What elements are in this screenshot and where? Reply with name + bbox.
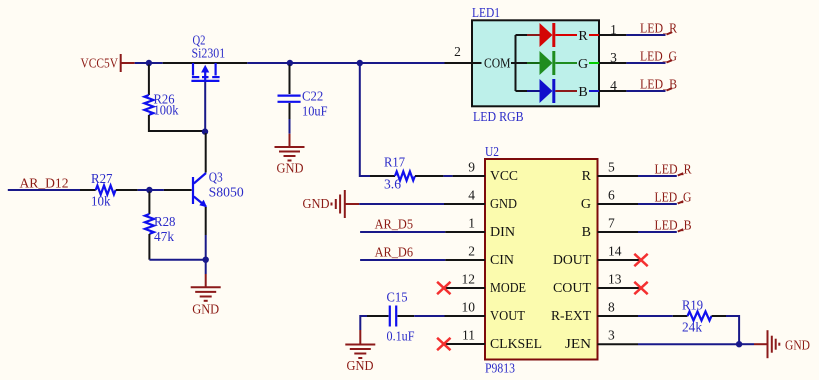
no-connect X DOUT	[634, 254, 647, 266]
svg-text:GND: GND	[347, 358, 374, 373]
svg-text:LED_G: LED_G	[640, 49, 677, 64]
svg-text:GND: GND	[303, 196, 330, 211]
svg-text:C22: C22	[302, 89, 323, 104]
wire COM internal leads	[472, 62, 516, 64]
wire end marker	[678, 229, 684, 231]
svg-text:GND: GND	[490, 197, 517, 212]
wire LED_B net	[626, 90, 665, 92]
pin 7 lead	[598, 231, 639, 233]
svg-text:VOUT: VOUT	[490, 309, 525, 324]
diode LED green	[527, 51, 599, 75]
ground GND power port at pin 4	[303, 190, 360, 218]
wire VCC rail black segment through Q2	[163, 62, 248, 64]
resistor R19	[682, 298, 712, 335]
wire LED_R net	[626, 34, 665, 36]
pin 9 lead	[453, 175, 485, 177]
svg-text:Si2301: Si2301	[192, 46, 226, 61]
svg-text:G: G	[581, 197, 591, 212]
pin 2 lead	[445, 259, 485, 261]
wire AR_D12	[8, 189, 80, 191]
power port VCC5V	[81, 54, 135, 72]
wire R19 to junction	[726, 316, 739, 344]
svg-text:10k: 10k	[91, 194, 111, 209]
diode LED red	[527, 23, 599, 47]
wire C22 bottom lead	[289, 103, 291, 119]
pin 8 lead	[598, 315, 639, 317]
wire C22 top lead	[289, 65, 291, 95]
wire R17 left lead	[370, 175, 395, 177]
svg-text:14: 14	[608, 244, 622, 259]
svg-text:7: 7	[608, 216, 615, 231]
ground Q3 GND	[191, 274, 221, 317]
svg-text:LED_R: LED_R	[655, 162, 692, 177]
svg-text:MODE: MODE	[490, 281, 526, 296]
IC U2 body	[485, 144, 598, 376]
diode LED blue	[527, 79, 599, 103]
wire end marker	[678, 201, 684, 203]
svg-text:AR_D12: AR_D12	[20, 176, 69, 191]
svg-text:GND: GND	[785, 338, 810, 353]
svg-text:R-EXT: R-EXT	[551, 309, 591, 324]
wire R19 left lead	[673, 315, 688, 317]
node R19/JEN junction	[736, 341, 742, 347]
svg-text:S8050: S8050	[209, 185, 244, 200]
svg-text:LED RGB: LED RGB	[473, 109, 524, 124]
wire LED internal bus	[515, 35, 517, 91]
wire R27 left lead	[80, 189, 96, 191]
wire LED_B net u2	[638, 231, 677, 233]
pin 4 lead	[444, 203, 485, 205]
svg-text:13: 13	[608, 272, 622, 287]
svg-text:6: 6	[608, 188, 615, 203]
wire rail to LED block	[247, 62, 444, 64]
node gate junction	[202, 128, 208, 134]
svg-text:LED_B: LED_B	[640, 77, 677, 92]
no-connect X CLKSEL	[437, 338, 450, 350]
wire LED_R net u2	[638, 175, 677, 177]
svg-text:AR_D6: AR_D6	[375, 245, 414, 260]
svg-text:10uF: 10uF	[302, 104, 328, 119]
wire COM pin lead	[445, 62, 473, 64]
node base junction	[146, 187, 152, 193]
wire gate vertical	[204, 82, 206, 133]
svg-text:R28: R28	[154, 214, 176, 229]
resistor R17	[384, 155, 415, 192]
pin 12 lead	[444, 287, 485, 289]
wire JEN net	[638, 343, 739, 345]
capacitor C15	[387, 290, 415, 344]
pin 3 lead	[599, 62, 626, 64]
svg-text:Q3: Q3	[209, 170, 223, 185]
pin 1 lead	[445, 231, 485, 233]
svg-text:AR_D5: AR_D5	[375, 217, 414, 232]
wire C15 left lead	[367, 315, 389, 317]
pin 14 lead	[598, 259, 642, 261]
svg-text:100k: 100k	[154, 103, 179, 118]
svg-text:VCC5V: VCC5V	[81, 56, 119, 71]
no-connect X MODE	[437, 282, 450, 294]
pin 13 lead	[598, 287, 642, 289]
svg-text:1: 1	[468, 216, 475, 231]
svg-text:GND: GND	[277, 161, 304, 176]
svg-text:B: B	[578, 85, 587, 100]
wire R28 to emitter junction	[149, 259, 205, 261]
wire GND to pin 4	[359, 203, 444, 205]
svg-text:R: R	[578, 29, 588, 44]
svg-text:B: B	[582, 225, 591, 240]
LED module LED1 body	[472, 5, 599, 124]
svg-text:9: 9	[468, 160, 475, 175]
resistor R28	[145, 214, 176, 244]
wire C15 to VOUT	[414, 315, 444, 317]
svg-text:R27: R27	[91, 171, 113, 186]
wire AR_D6 net	[360, 259, 445, 261]
wire Q3 collector pin	[205, 133, 207, 173]
svg-text:LED1: LED1	[472, 5, 500, 20]
ground C22 GND	[275, 134, 305, 176]
no-connect X COUT	[634, 282, 647, 294]
wire junction to ground	[739, 343, 754, 345]
svg-text:C15: C15	[387, 290, 408, 305]
wire R17 to VCC pin	[443, 175, 452, 177]
node emitter junction	[203, 257, 209, 263]
svg-text:GND: GND	[192, 302, 219, 317]
svg-text:24k: 24k	[682, 320, 702, 335]
svg-text:LED_G: LED_G	[655, 190, 692, 205]
pin 4 lead	[599, 90, 626, 92]
wire emitter to ground junction	[205, 235, 207, 258]
svg-text:5: 5	[608, 160, 615, 175]
wire LED_G net	[626, 62, 665, 64]
wire C22 to ground	[289, 119, 291, 134]
pin 11 lead	[444, 343, 485, 345]
svg-text:CIN: CIN	[490, 253, 514, 268]
svg-text:R: R	[582, 169, 592, 184]
svg-text:LED_R: LED_R	[640, 21, 677, 36]
wire C15 right lead	[398, 315, 415, 317]
svg-text:DOUT: DOUT	[553, 253, 591, 268]
wire LED_G net u2	[638, 203, 677, 205]
wire VCC rail blue segment	[135, 62, 163, 64]
wire R26 bottom lead to gate node	[149, 115, 205, 131]
transistor Q2	[191, 33, 225, 81]
ground C15 GND	[345, 330, 375, 373]
wire R-EXT to R19	[638, 315, 673, 317]
wire Q3 base pin	[164, 189, 192, 191]
node C22 junction	[287, 60, 293, 66]
svg-text:0.1uF: 0.1uF	[387, 329, 415, 344]
svg-text:1: 1	[610, 22, 617, 37]
wire emitter junction to ground	[205, 261, 207, 274]
wire R27 to junction	[138, 189, 164, 191]
svg-text:4: 4	[468, 188, 475, 203]
wire R26 top lead	[148, 65, 150, 96]
svg-text:LED_B: LED_B	[655, 218, 692, 233]
wire R28 top lead	[148, 192, 150, 215]
wire C15 to ground	[360, 316, 367, 330]
wire drop to R17	[360, 63, 370, 176]
svg-text:U2: U2	[485, 144, 499, 159]
svg-text:47k: 47k	[154, 229, 174, 244]
wire end marker	[667, 60, 673, 62]
capacitor C22	[278, 89, 328, 119]
svg-text:JEN: JEN	[565, 337, 591, 352]
resistor R26	[144, 92, 178, 118]
svg-text:3: 3	[610, 50, 617, 65]
wire R17 right lead	[415, 175, 443, 177]
wire end marker	[678, 173, 684, 175]
svg-text:DIN: DIN	[490, 225, 515, 240]
svg-text:R17: R17	[384, 155, 405, 170]
wire end marker	[667, 32, 673, 34]
svg-text:P9813: P9813	[485, 361, 515, 376]
pin 10 lead	[445, 315, 486, 317]
svg-text:COM: COM	[484, 57, 511, 72]
svg-text:10: 10	[462, 300, 476, 315]
svg-text:12: 12	[462, 272, 476, 287]
svg-text:2: 2	[468, 244, 475, 259]
node VCC/R26 junction	[146, 60, 152, 66]
transistor Q3	[193, 170, 244, 208]
wire AR_D5 net	[360, 231, 445, 233]
resistor R27	[91, 171, 116, 209]
svg-text:G: G	[578, 57, 588, 72]
svg-text:3: 3	[608, 328, 615, 343]
pin 6 lead	[598, 203, 639, 205]
pin 5 lead	[598, 175, 639, 177]
wire bus branches	[516, 35, 528, 91]
ground GND power port bottom right	[754, 330, 810, 358]
wire R27 right lead	[116, 189, 138, 191]
svg-text:CLKSEL: CLKSEL	[490, 337, 542, 352]
wire R19 right lead	[712, 315, 727, 317]
svg-text:3.6: 3.6	[384, 177, 401, 192]
svg-text:8: 8	[608, 300, 615, 315]
svg-text:2: 2	[454, 44, 461, 59]
pin 1 lead	[599, 34, 626, 36]
wire Q3 emitter pin	[205, 207, 207, 235]
svg-text:11: 11	[462, 328, 475, 343]
svg-text:VCC: VCC	[490, 169, 518, 184]
svg-text:R19: R19	[682, 298, 703, 313]
wire R28 bottom lead	[148, 234, 150, 260]
pin 3 lead	[598, 343, 639, 345]
svg-text:COUT: COUT	[553, 281, 591, 296]
svg-text:4: 4	[610, 78, 617, 93]
wire end marker	[667, 88, 673, 90]
node R17 drop junction	[357, 60, 363, 66]
